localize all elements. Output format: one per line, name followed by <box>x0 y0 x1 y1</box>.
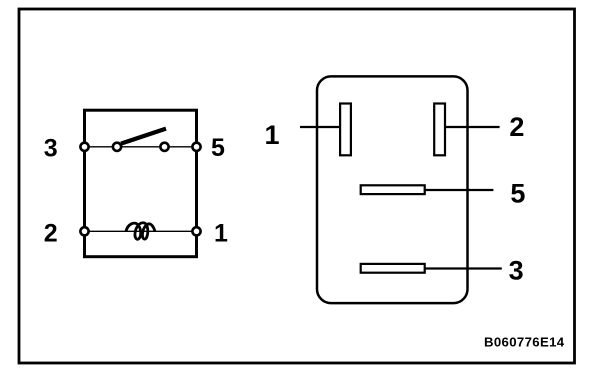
connector slot pin 5 <box>361 185 425 194</box>
switch contact right <box>160 143 168 151</box>
svg-text:2: 2 <box>44 219 58 247</box>
svg-text:1: 1 <box>264 120 279 150</box>
svg-text:1: 1 <box>214 220 228 248</box>
leader line pin 1 <box>300 126 340 128</box>
svg-text:5: 5 <box>211 134 225 162</box>
svg-text:2: 2 <box>509 112 524 142</box>
terminal pin 3 <box>80 143 88 151</box>
connector shell <box>317 76 468 303</box>
leader line pin 2 <box>446 126 500 128</box>
terminal pin 5 <box>192 143 200 151</box>
terminal pin 2 <box>80 227 88 235</box>
connector slot pin 2 <box>434 104 445 156</box>
coil <box>126 223 155 240</box>
svg-text:B060776E14: B060776E14 <box>484 334 565 349</box>
leader line pin 5 <box>426 189 494 191</box>
svg-text:3: 3 <box>509 255 524 285</box>
wire bottom row 2-1 <box>85 230 197 232</box>
svg-text:5: 5 <box>510 179 525 209</box>
switch contact left <box>113 143 121 151</box>
connector slot pin 1 <box>340 104 351 156</box>
wire top row 3-5 <box>85 146 197 148</box>
switch arm <box>121 129 166 144</box>
relay box <box>85 110 197 257</box>
terminal pin 1 <box>192 227 200 235</box>
leader line pin 3 <box>426 267 502 269</box>
svg-text:3: 3 <box>44 135 58 163</box>
connector slot pin 3 <box>361 264 425 273</box>
